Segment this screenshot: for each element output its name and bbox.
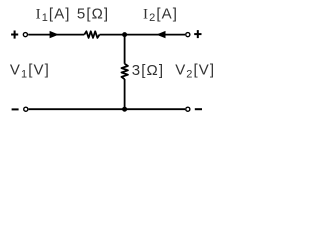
minus sign bottom-left terminal (12, 108, 19, 110)
minus sign bottom-right terminal (195, 108, 202, 110)
port terminal circle bottom-left (24, 107, 28, 111)
wire top-left (28, 34, 84, 36)
svg-text:I2[A]: I2[A] (143, 5, 178, 24)
port terminal circle top-left (23, 33, 27, 37)
wire top-right (100, 34, 186, 36)
junction node dot top (122, 32, 127, 37)
vertical wire upper segment (124, 35, 126, 64)
current arrow I1 (pointing right) (50, 31, 59, 38)
port terminal circle bottom-right (186, 107, 190, 111)
junction node dot bottom (122, 107, 127, 112)
svg-text:V2[V]: V2[V] (175, 62, 215, 81)
plus sign top-left terminal (11, 31, 18, 39)
bottom wire (29, 108, 185, 110)
svg-text:5[Ω]: 5[Ω] (77, 5, 109, 22)
svg-text:V1[V]: V1[V] (10, 62, 50, 81)
plus sign top-right terminal (194, 30, 201, 38)
vertical wire lower segment (124, 79, 126, 109)
resistor R1 5 ohm (horizontal zigzag) (84, 31, 99, 38)
port terminal circle top-right (186, 33, 190, 37)
svg-text:I1[A]: I1[A] (36, 5, 71, 24)
svg-text:3[Ω]: 3[Ω] (132, 62, 164, 79)
resistor R2 3 ohm (vertical zigzag) (122, 64, 128, 79)
current arrow I2 (pointing left) (156, 31, 165, 38)
